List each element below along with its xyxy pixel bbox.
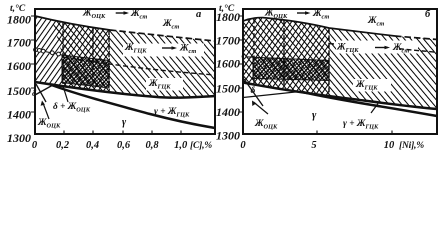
label gap box 2 [146, 78, 183, 91]
arrow leader Ж_ОЦК right [254, 102, 269, 114]
solidus heavy line B1 [35, 82, 215, 98]
svg-text:1600: 1600 [216, 57, 240, 71]
svg-text:Жст: Жст [162, 19, 179, 31]
solidus heavy line right [243, 83, 437, 110]
vertical dashed line C=0.2 [62, 23, 64, 84]
svg-text:0,8: 0,8 [145, 140, 159, 151]
svg-text:γ + ЖГЦК: γ + ЖГЦК [343, 119, 379, 131]
arrow leader Ж_ОЦК [43, 103, 49, 119]
svg-text:б: б [425, 9, 431, 20]
svg-text:1300: 1300 [216, 129, 240, 143]
svg-text:1700: 1700 [7, 36, 31, 50]
svg-text:0,2: 0,2 [56, 140, 70, 151]
liquidus dashed right [110, 30, 215, 41]
region Ж_ГЦК backslash-hatch [52, 20, 215, 97]
region Ж_ОЦК slash-hatch [35, 16, 110, 93]
frame left panel [35, 9, 215, 134]
svg-text:1300: 1300 [7, 131, 31, 145]
vertical dashed line C=0.4 [92, 28, 94, 88]
svg-text:0: 0 [32, 140, 38, 151]
liquidus solid left [35, 16, 110, 30]
svg-text:Жст: Жст [367, 16, 384, 28]
svg-text:1800: 1800 [216, 10, 240, 24]
svg-text:1800: 1800 [7, 13, 31, 27]
svg-text:Жст: Жст [130, 9, 147, 21]
svg-text:0: 0 [240, 140, 246, 151]
svg-text:[C],%: [C],% [190, 141, 212, 151]
svg-text:δ: δ [32, 88, 37, 98]
svg-text:[Ni],%: [Ni],% [399, 141, 424, 151]
label Ж_ГЦК → Ж_ст right [336, 43, 409, 55]
label Ж_ГЦК → Ж_ст [124, 43, 196, 55]
svg-text:1600: 1600 [7, 59, 31, 73]
dense crack-sensitivity zone right [253, 57, 329, 80]
gamma liquidus heavy [50, 85, 215, 129]
steep delta boundary right [244, 79, 263, 106]
leader gamma+Ж right [371, 104, 378, 114]
region Ж_ОЦК slash-hatch right panel [243, 18, 329, 96]
svg-text:1700: 1700 [216, 33, 240, 47]
svg-text:ЖОЦК: ЖОЦК [82, 9, 106, 21]
svg-text:0,6: 0,6 [117, 140, 131, 151]
svg-text:1400: 1400 [7, 108, 31, 122]
dense crack-sensitivity zone [62, 55, 109, 88]
svg-text:5: 5 [311, 140, 316, 151]
x ticks [64, 131, 181, 135]
liquidus solid right panel [243, 18, 395, 36]
svg-text:1500: 1500 [216, 82, 240, 96]
label Ж_ОЦК → Ж_ст top [82, 9, 147, 21]
svg-text:1,0: 1,0 [174, 140, 188, 151]
label gap box 1 [123, 44, 204, 57]
label gap box 4 [353, 79, 391, 92]
svg-text:1400: 1400 [216, 105, 240, 119]
lower dashed boundary right visible tail [399, 49, 437, 53]
svg-text:γ: γ [312, 110, 317, 121]
svg-text:0,4: 0,4 [86, 140, 99, 151]
gamma liquidus heavy right [300, 92, 437, 117]
liquidus dashed tail right panel [395, 36, 437, 40]
vertical dashed line Ni low [253, 19, 255, 84]
x ticks right [317, 131, 392, 135]
boundary line with markers [35, 50, 62, 56]
experimental point markers [34, 48, 38, 52]
label gap box 3 [336, 41, 418, 54]
lower dashed boundary [63, 57, 215, 75]
svg-text:1500: 1500 [7, 84, 31, 98]
svg-text:10: 10 [384, 140, 395, 151]
vertical dashed line C=0.5 [108, 30, 110, 88]
svg-text:γ + ЖГЦК: γ + ЖГЦК [154, 107, 190, 119]
frame right panel [243, 9, 437, 134]
svg-text:ЖОЦК: ЖОЦК [254, 119, 278, 131]
marker circle right [242, 55, 246, 59]
svg-text:δ: δ [251, 86, 256, 96]
vertical dashed line Ni high [328, 28, 330, 96]
delta solvus right [243, 92, 300, 98]
leader to delta+Ж region [63, 86, 68, 102]
region Ж_ГЦК backslash-hatch right panel [243, 18, 437, 109]
label Ж_ОЦК → Ж_ст top right [264, 9, 329, 21]
svg-text:Жст: Жст [312, 9, 329, 21]
svg-text:ЖОЦК: ЖОЦК [37, 118, 61, 130]
delta solvus [35, 86, 52, 96]
vertical dashed line Ni mid [283, 21, 285, 87]
y ticks right [239, 16, 243, 112]
boundary line with marker right [243, 56, 253, 59]
svg-text:δ + ЖОЦК: δ + ЖОЦК [53, 102, 91, 114]
y ticks [31, 16, 35, 112]
svg-text:а: а [196, 9, 201, 20]
lower dashed boundary right [329, 44, 344, 46]
steep delta boundary [36, 84, 46, 102]
label gap box top right [262, 10, 314, 19]
svg-text:γ: γ [122, 117, 127, 128]
